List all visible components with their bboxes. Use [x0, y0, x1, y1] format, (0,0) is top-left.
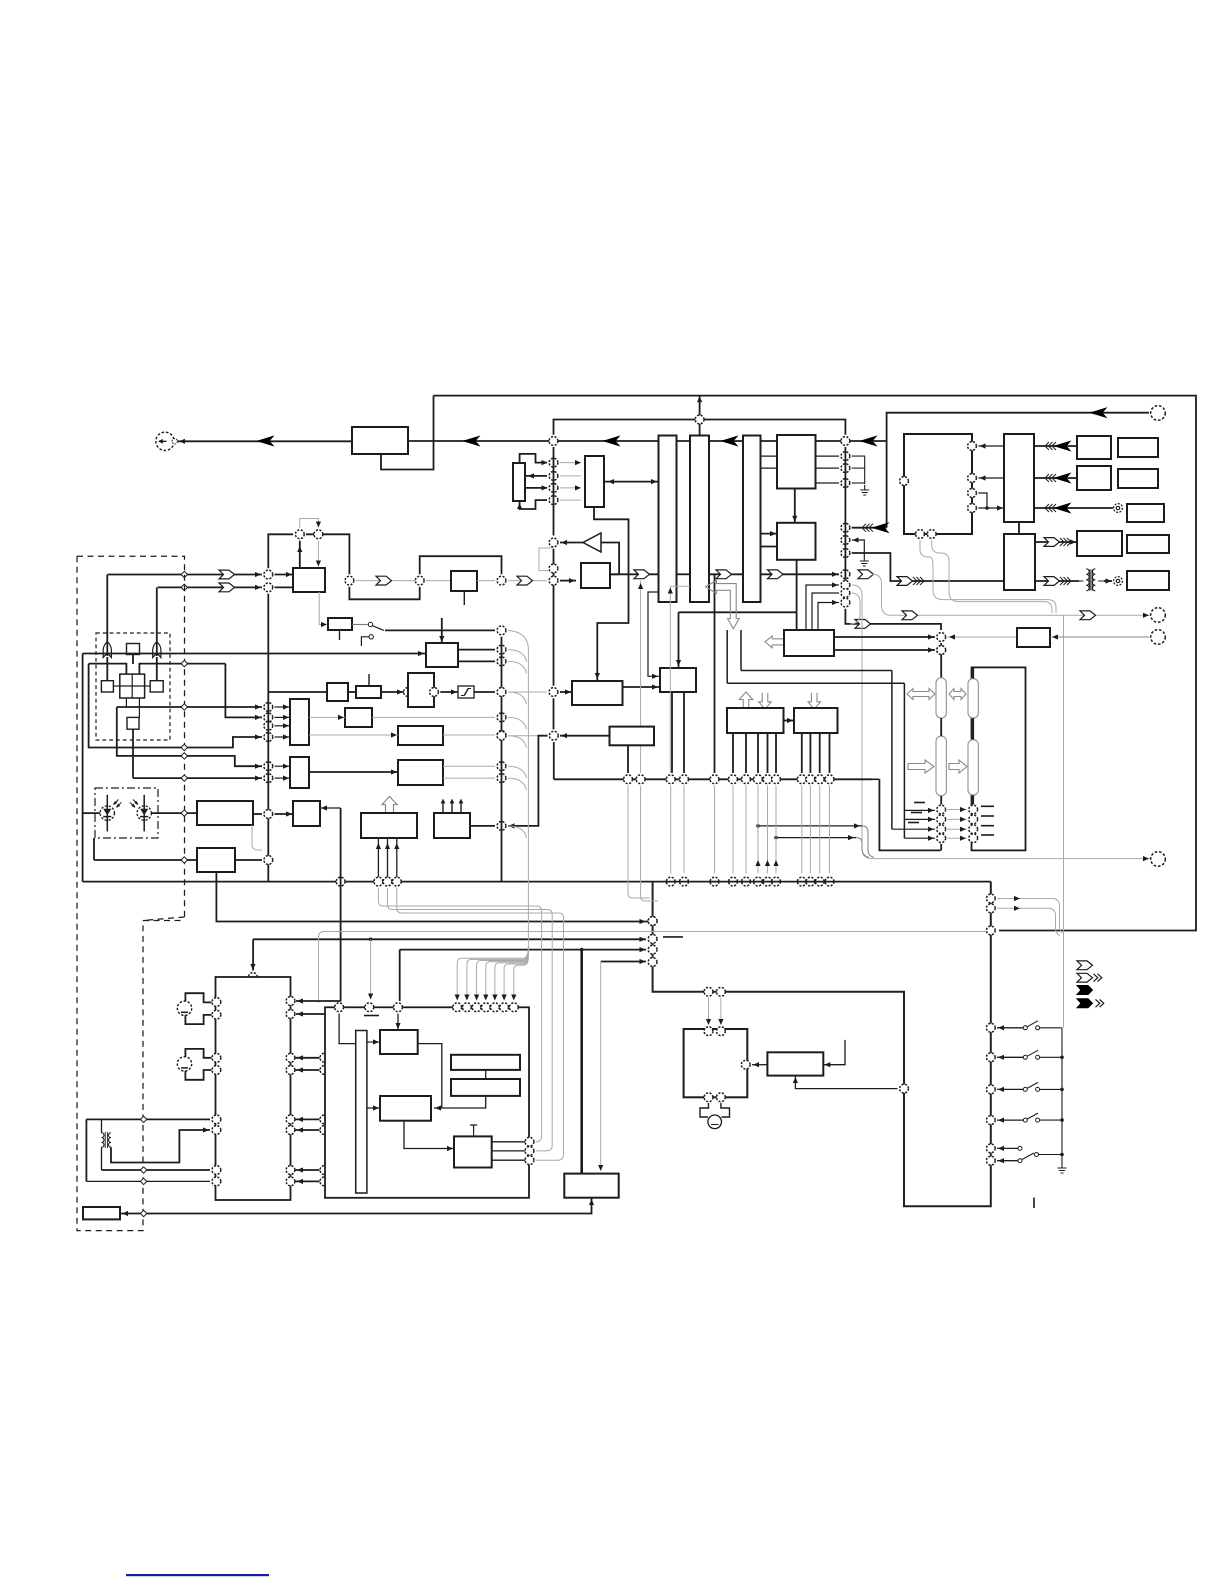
dotted inner enclosure — [96, 633, 170, 740]
capsule link d — [972, 795, 974, 804]
node U8 L8 — [212, 1177, 221, 1186]
arrow up H1 — [793, 1077, 798, 1083]
collector tap y735.7 — [508, 736, 527, 748]
stub XH bottom b — [138, 698, 140, 717]
arrow into U3 left — [418, 651, 424, 656]
IC U_rect1 — [659, 436, 677, 603]
node cap2 p4 — [969, 834, 978, 843]
node N47 — [392, 877, 401, 886]
node SC T5 — [463, 1003, 472, 1012]
block H1 — [767, 1052, 823, 1075]
rotary transformer XH (4-pane) — [120, 674, 145, 698]
capsule link a — [940, 718, 942, 736]
bus x553 seg5 — [553, 698, 555, 729]
node row2 p6 — [754, 877, 763, 886]
link SD-SE — [485, 1070, 487, 1079]
capsule bottom a — [940, 844, 942, 851]
tick cap R4 — [981, 834, 994, 836]
ground bracket low — [852, 482, 865, 484]
video head HD1 — [103, 642, 111, 658]
node SC R1 — [525, 1137, 534, 1146]
wire y949 corner — [399, 950, 401, 1001]
chevron C5 — [219, 583, 235, 592]
arrow into V7 — [787, 718, 793, 723]
arrow into SA — [395, 1023, 400, 1029]
node brd L2 — [648, 935, 657, 944]
node SC T3 — [394, 1003, 403, 1012]
wire N52 to hyst — [440, 691, 458, 693]
arrow into U3 top2 — [439, 636, 444, 642]
block K1 — [328, 618, 352, 630]
gray wire M6 out — [443, 734, 495, 736]
arrow A6 — [873, 523, 888, 532]
gray arrow SC y1181.4 — [331, 1179, 337, 1184]
node row1 p3 — [666, 775, 675, 784]
stub K1 bottom — [339, 630, 341, 640]
node row2 p7 — [763, 877, 772, 886]
row1 wire — [554, 778, 872, 780]
wire rect3 to B8 a — [761, 533, 778, 535]
pin link x810.4 — [809, 786, 811, 874]
bundle fan 1 — [457, 946, 528, 999]
node N40 — [264, 762, 273, 771]
gray link caps y829.2 — [947, 828, 967, 830]
wire V6 pin x746 — [745, 733, 747, 773]
wire B7 out y468 — [816, 467, 840, 469]
motor M3 loading — [700, 1103, 730, 1129]
gray bypass loop N8-N9 — [539, 548, 554, 571]
switch S1 — [1023, 1021, 1062, 1030]
bundle fan 4 — [486, 951, 529, 999]
node SC L y1130 — [320, 1126, 329, 1135]
chevron C6 — [376, 576, 392, 585]
wire B2 to node N5 — [525, 475, 547, 477]
arrow sw2 — [998, 1055, 1004, 1060]
gray arrow brd R1 — [1014, 896, 1020, 901]
wire sw3 — [997, 1088, 1023, 1090]
node U8 R8 — [286, 1177, 295, 1186]
bus x845 segment3 — [844, 568, 846, 596]
node N50d — [497, 762, 506, 771]
arrow cp3 — [928, 827, 934, 832]
IC U_rect2 — [690, 436, 709, 603]
ground G1 — [860, 485, 869, 495]
arrow into node N6 — [542, 485, 548, 490]
wire y574 B4 to chev — [610, 573, 658, 575]
wire U2 out to node — [560, 542, 583, 544]
dot a — [756, 824, 760, 828]
wire V6 pin x776 — [775, 733, 777, 773]
wire bus x553 seg3 — [553, 575, 555, 587]
wire into B4 right — [610, 573, 619, 575]
diamond D4 — [181, 744, 187, 750]
arrow W1 d — [283, 734, 289, 739]
collector tap y692 — [508, 692, 527, 704]
node SC L y1181.4 — [320, 1177, 329, 1186]
gray drop from U4 b — [932, 540, 1052, 613]
wire top border — [434, 396, 1197, 931]
arrow into V1 — [565, 689, 571, 694]
legend hatches 2 — [1096, 999, 1104, 1007]
block W2 — [290, 757, 309, 788]
stub SC3 top — [470, 1125, 477, 1136]
wire B1 bottom loop — [381, 396, 434, 470]
legend solid plain — [1077, 986, 1093, 995]
node G1 B2 — [717, 1093, 726, 1102]
arrow into N12 — [255, 572, 261, 577]
arrow into brdL4 — [640, 959, 646, 964]
pin link x829.5 — [829, 786, 831, 874]
wire V6 pin x733 — [732, 733, 734, 773]
arrow into node N4 — [542, 460, 548, 465]
gray arrow caps y809.5 — [960, 807, 966, 812]
gray link SC y1119.4 — [330, 1118, 356, 1120]
node N59 — [937, 646, 946, 655]
gray drop row1 b — [641, 786, 658, 901]
wire coil stub b — [101, 1147, 103, 1170]
wire N37 to W1 — [275, 716, 291, 718]
link HL-XH — [113, 685, 119, 687]
gray V5 to N57 — [948, 636, 1017, 638]
hollow dbl arrow 1 — [907, 689, 935, 700]
arrow cp2 — [928, 817, 934, 822]
switch common rail — [1061, 1028, 1063, 1155]
block U3 servo in — [426, 643, 458, 667]
node N25 — [841, 549, 850, 558]
gray wire y615 run — [873, 574, 1151, 615]
tick cap L1 — [914, 802, 925, 804]
wire y949 line — [400, 949, 646, 951]
arrow into B8 top — [792, 516, 797, 522]
gray arrow into B3b — [575, 485, 581, 490]
wire B1 to bus right — [408, 440, 887, 442]
wire J1 to B1 — [178, 440, 353, 442]
wire U8 link y1130 — [296, 1129, 320, 1131]
block G1 loading drv — [684, 1029, 748, 1097]
wire V4 y637 — [834, 636, 935, 638]
node N14 — [295, 530, 304, 539]
node brd L3 — [648, 945, 657, 954]
block V3 — [610, 727, 655, 746]
wire T1 to jack J4 — [1104, 580, 1112, 582]
wire HD1 down — [106, 657, 108, 681]
gray link caps y809.5 — [947, 809, 967, 811]
arrow into SC3 — [447, 1146, 453, 1151]
node N55 — [549, 731, 558, 740]
block T3 — [293, 801, 320, 826]
wire U6 y542 out — [1035, 541, 1077, 543]
node row2 p8 — [772, 877, 781, 886]
arrow into M7 — [391, 769, 397, 774]
wire N10 right — [560, 580, 576, 582]
node SC T9 — [500, 1003, 509, 1012]
arrow into J1 — [179, 439, 185, 444]
node SC T4 — [453, 1003, 462, 1012]
wire N57 down to capsule — [940, 643, 942, 678]
wire H1 to G1 — [752, 1064, 767, 1066]
gray vertical x1063 — [1063, 615, 1065, 933]
fan arrow 2 — [464, 995, 469, 1001]
wire LED to T2 — [151, 812, 197, 814]
arrow into N61 — [509, 823, 515, 828]
wire V3 pins a — [627, 745, 629, 773]
wire coil right path — [111, 1130, 210, 1163]
hatches H1 — [862, 524, 873, 532]
switch S4 — [1023, 1113, 1062, 1122]
gray wire N15 down — [317, 541, 319, 566]
dash-dot enclosure LED — [95, 788, 158, 838]
wire SCT3 drop — [397, 1014, 399, 1029]
block W1 — [290, 699, 309, 745]
wire U8R2 link — [296, 1013, 325, 1015]
gray link SC y1130 — [330, 1129, 356, 1131]
gray wire N7 to B3 — [560, 499, 581, 501]
wire V4 top d — [818, 603, 839, 631]
tick cap R2 — [981, 815, 994, 817]
link M1-M2 — [348, 691, 356, 693]
wire U4 to U5 y478 — [978, 477, 1004, 479]
arrow sw5 — [998, 1146, 1004, 1151]
wire N54 into V1 — [560, 691, 571, 693]
bus x845 segment2 — [844, 521, 846, 568]
gray arrow SC y1130 — [331, 1127, 337, 1132]
tap wire a — [758, 825, 862, 827]
wire N39 to W1 — [275, 736, 291, 738]
collector tap y825.9 — [508, 826, 527, 838]
wire M8 pin b — [387, 838, 389, 877]
pin link x758 — [757, 786, 759, 874]
wire V6 pin x758 — [757, 733, 759, 773]
node SC T6 — [472, 1003, 481, 1012]
gray drop G1 b — [720, 997, 722, 1024]
block HS — [127, 717, 139, 729]
hollow right arrow 1 — [908, 760, 934, 773]
capsule link b — [972, 718, 974, 740]
node cap2 p2 — [969, 815, 978, 824]
fan arrow 3 — [474, 995, 479, 1001]
wire x714 drop — [714, 574, 716, 773]
bundle fan 2 — [467, 948, 529, 999]
node N18 — [497, 576, 506, 585]
connector J7 — [1151, 630, 1166, 645]
tick cap L3 — [908, 822, 919, 824]
ground bracket right of bus — [852, 456, 865, 484]
block M8 drum drive — [361, 813, 417, 838]
block M2 — [356, 686, 381, 698]
arrow U8 y1181.4 — [297, 1179, 303, 1184]
block SB — [380, 1096, 431, 1121]
wire B7 to rect3 y468 — [761, 467, 778, 469]
node N50c — [497, 731, 506, 740]
wire U8 link y1119.4 — [296, 1118, 320, 1120]
block R3 — [1127, 504, 1164, 522]
wire M8 pin a — [377, 838, 379, 877]
gray link SC y1170 — [330, 1169, 356, 1171]
wire SB to SC3 — [404, 1121, 454, 1149]
wire y939 line — [253, 938, 646, 940]
block B8 — [777, 523, 816, 560]
node N17 — [415, 576, 424, 585]
node row1 p7 — [742, 775, 751, 784]
block M7 cap speed — [398, 760, 443, 785]
node N22 — [841, 479, 850, 488]
arrow into N57 right — [949, 634, 955, 639]
wire y1214 long — [121, 1213, 592, 1215]
arrow coil — [203, 1127, 209, 1132]
wire U8 link y1070 — [296, 1069, 320, 1071]
IC U4 chroma — [904, 434, 972, 534]
LED D_L2 — [130, 795, 151, 832]
cable pin wire 3 — [892, 828, 935, 830]
wire U3 out b — [458, 660, 495, 662]
block T2 sensor amp — [197, 801, 253, 825]
thick drop to F1 — [580, 950, 583, 1174]
node SW col 2 — [986, 1053, 995, 1062]
gray rail lower — [1063, 933, 1065, 1028]
node brd B2 — [717, 987, 726, 996]
switch S2 — [1023, 1050, 1062, 1059]
bus arrow A3b — [722, 436, 737, 445]
gray arrow up x640 — [638, 583, 643, 589]
node U8 R1 — [286, 997, 295, 1006]
block B5 head amp — [293, 568, 325, 592]
node G1 T1 — [704, 1027, 713, 1036]
wire y939 corner — [252, 939, 254, 970]
node N37 — [264, 713, 273, 722]
wire to connector J2 — [887, 413, 1149, 441]
wire W2 to M7 — [309, 771, 398, 773]
node SC T1 — [335, 1003, 344, 1012]
connector J6 — [1151, 852, 1166, 867]
block V7 — [794, 708, 838, 733]
arrow A5 — [1091, 408, 1106, 417]
arrow into brdL3 — [640, 947, 646, 952]
dot b — [774, 836, 778, 840]
node N50b — [497, 713, 506, 722]
node U8 L4 — [212, 1066, 221, 1075]
hatches H3 — [1045, 442, 1056, 450]
node N23 — [841, 523, 850, 532]
block B1 tuner — [352, 427, 408, 454]
pin link x801.8 — [801, 786, 803, 874]
gray wire N16 to C6 — [356, 580, 419, 582]
rail dot y1154.5 — [1060, 1153, 1064, 1157]
node SC R3 — [525, 1156, 534, 1165]
wire V1 out to V2 — [623, 686, 660, 688]
node row1 p9 — [763, 775, 772, 784]
gray drop to F1 top — [600, 962, 602, 1171]
node N45 — [374, 877, 383, 886]
block SA — [380, 1030, 418, 1054]
arrow into B2 — [528, 473, 534, 478]
node U8 L2 — [212, 1010, 221, 1019]
wire J7 to V5 — [1050, 636, 1149, 638]
gray arrow into M6 — [391, 732, 397, 737]
gray wire N56 to N55 — [508, 735, 547, 737]
capsule link c — [940, 796, 942, 805]
gray arrow SC y1070 — [331, 1067, 337, 1072]
wire T2 to N42 — [253, 813, 262, 815]
diamond D11 — [140, 1167, 146, 1173]
node N46 — [383, 877, 392, 886]
legend chevron hatched — [1077, 973, 1093, 982]
wire F1 bottom — [591, 1198, 593, 1215]
node N54 — [549, 688, 558, 697]
gray wire N4 to B3 — [560, 462, 581, 464]
chevron C10 — [1044, 538, 1060, 547]
node SW col 3 — [986, 1085, 995, 1094]
gray arrow SC y1119.4 — [331, 1117, 337, 1122]
arrow into R4a — [1070, 539, 1076, 544]
wire bypass top — [554, 420, 846, 435]
diamond D5 — [181, 704, 187, 710]
bus x845 to capsule bus — [845, 609, 935, 624]
arrow W1 b — [283, 715, 289, 720]
node N53 — [497, 688, 506, 697]
wire H1 bottom — [795, 1076, 897, 1089]
node G1 B1 — [704, 1093, 713, 1102]
gray wire N17 to B6 — [426, 580, 451, 582]
bundle fan 5 — [495, 953, 529, 999]
arrow into M3 — [397, 689, 403, 694]
arrow into N32 — [980, 443, 986, 448]
bundle fan 3 — [477, 949, 529, 999]
connector J5 — [1151, 608, 1166, 623]
wire sw4 — [997, 1119, 1023, 1121]
wire y612 route — [679, 611, 797, 613]
node U8 R4 — [286, 1066, 295, 1075]
node N38 — [264, 721, 273, 730]
switch S3 — [1023, 1082, 1062, 1091]
wire SC3 out a — [492, 1141, 530, 1143]
node U8 R2 — [286, 1010, 295, 1019]
node row2 p4 — [729, 877, 738, 886]
bus arrow A3 — [604, 436, 619, 445]
block V5 — [1017, 628, 1050, 647]
wire vert x888 down — [886, 441, 888, 528]
bracket M1b — [185, 1015, 211, 1024]
gray drop G1 a — [708, 997, 710, 1024]
wire U5 y508 to jack — [1034, 507, 1113, 509]
gray drop x640 — [640, 581, 642, 773]
bus arrow A2 — [464, 436, 479, 445]
wire B7 out y483 — [816, 482, 840, 484]
arrow into N37 — [255, 715, 261, 720]
wire rect3 to B8 b — [761, 546, 778, 548]
arrow M8 pin c — [394, 843, 399, 849]
wire y574 rect1-rect2 — [677, 573, 691, 575]
gray stub T2 bottom — [252, 825, 262, 850]
arrow up pin x776 — [773, 860, 778, 866]
pin link x767.5 — [767, 786, 769, 874]
wire sw2 — [997, 1056, 1023, 1058]
chevron C11 — [1044, 577, 1060, 586]
rail dot y1120.1 — [1060, 1118, 1064, 1122]
gray drop from U4 a — [920, 540, 1056, 613]
bracket N34 — [978, 493, 987, 508]
gray arrow N15 — [316, 522, 321, 528]
arrow into N58 — [928, 647, 934, 652]
node U8 L1 — [212, 998, 221, 1007]
wire U4 to U5 y446 — [978, 445, 1004, 447]
arrow into N28 — [832, 600, 838, 605]
wire y534 chain — [306, 534, 349, 574]
wire SW1 to N19 — [385, 629, 495, 631]
gray line y931 — [319, 932, 991, 1004]
rail dot y1089.4 — [1060, 1088, 1064, 1092]
wire x340 vertical — [340, 808, 342, 1001]
link V6-V7 — [784, 720, 795, 722]
